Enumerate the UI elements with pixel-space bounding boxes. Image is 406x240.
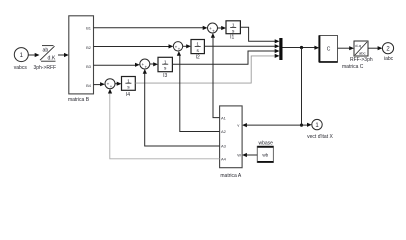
transfo block RFF->3ph xyxy=(350,41,373,63)
inport 1 vabcs xyxy=(14,48,29,71)
wire A2 feedback to S2 xyxy=(177,51,220,132)
wire S2 to I2 xyxy=(183,44,191,48)
wire B3 to sum S3 xyxy=(94,63,140,67)
svg-text:I2: I2 xyxy=(196,55,200,61)
wire A3 feedback to S3 xyxy=(143,69,220,146)
wire transfo to outport iabc xyxy=(368,46,382,50)
wire state net to outport vect d'etat X xyxy=(302,123,312,127)
integrator I3 xyxy=(158,57,172,79)
sum S3 xyxy=(140,59,150,69)
wire inport to transfo xyxy=(28,53,40,57)
wire B2 to sum S2 xyxy=(94,44,174,48)
svg-text:matrica A: matrica A xyxy=(220,173,242,179)
matrix A block xyxy=(220,106,243,179)
wire state net to matrix A input Y xyxy=(242,123,301,127)
wire I2 to mux input 2 xyxy=(204,44,279,48)
integrator I1 xyxy=(226,21,240,41)
svg-text:C: C xyxy=(327,46,331,52)
wire junction down to state net xyxy=(300,48,303,127)
svg-text:+: + xyxy=(212,28,215,33)
wire I4 to mux input 4 xyxy=(135,54,279,83)
svg-text:A2: A2 xyxy=(221,129,227,134)
svg-text:+: + xyxy=(110,84,113,89)
svg-text:Y: Y xyxy=(237,123,240,128)
svg-text:W: W xyxy=(237,153,241,158)
svg-text:B3: B3 xyxy=(86,64,92,69)
outport 2 iabc xyxy=(382,43,393,62)
sum S4 xyxy=(105,79,115,89)
mux xyxy=(279,38,282,60)
svg-text:1: 1 xyxy=(315,123,319,129)
wire wb to matrix A input W xyxy=(242,153,257,157)
wire A1 feedback to S1 xyxy=(211,33,220,118)
svg-text:2: 2 xyxy=(386,46,390,52)
svg-text:wbase: wbase xyxy=(258,140,273,146)
svg-text:d-q: d-q xyxy=(355,43,361,48)
svg-text:vabcs: vabcs xyxy=(14,65,28,71)
wire S3 to I3 xyxy=(150,62,158,66)
svg-text:B4: B4 xyxy=(86,83,92,88)
sum S1 xyxy=(208,23,218,33)
wire mux to matrix C with junction xyxy=(283,46,320,50)
wire A4 feedback to S4 xyxy=(108,89,220,159)
matrix B block xyxy=(68,16,94,103)
integrator I2 xyxy=(191,40,204,61)
outport 1 vect d'etat X xyxy=(307,119,333,140)
integrator I4 xyxy=(122,77,136,98)
svg-text:abc: abc xyxy=(359,51,365,56)
svg-text:3ph->RFF: 3ph->RFF xyxy=(33,65,56,71)
svg-text:iabc: iabc xyxy=(384,56,394,62)
svg-text:d.K: d.K xyxy=(48,56,56,62)
wire transfo to matrix B xyxy=(58,53,69,57)
svg-text:wb: wb xyxy=(262,153,268,158)
svg-text:RFF->3ph: RFF->3ph xyxy=(350,57,373,63)
svg-text:I3: I3 xyxy=(163,73,167,79)
svg-text:matrica C: matrica C xyxy=(342,64,364,70)
svg-text:A4: A4 xyxy=(221,157,227,162)
wire B1 to sum S1 xyxy=(94,26,208,30)
svg-text:B1: B1 xyxy=(86,25,92,30)
matrix C block xyxy=(319,36,364,71)
wire I3 to mux input 3 xyxy=(172,49,279,64)
svg-text:I1: I1 xyxy=(230,34,234,40)
wire S1 to I1 xyxy=(218,26,227,30)
svg-text:+: + xyxy=(178,47,181,52)
wire I1 to mux input 1 xyxy=(240,27,279,43)
svg-text:vect d'itat X: vect d'itat X xyxy=(307,134,333,140)
svg-text:A3: A3 xyxy=(221,144,227,149)
svg-text:A1: A1 xyxy=(221,115,227,120)
wire matrix C to transfo RFF->3ph xyxy=(338,46,354,50)
svg-text:B2: B2 xyxy=(86,45,92,50)
svg-text:1: 1 xyxy=(20,53,24,59)
svg-text:I4: I4 xyxy=(126,92,130,98)
transfo block 3ph->RFF xyxy=(33,46,56,71)
wire S4 to I4 xyxy=(115,82,122,86)
wire B4 to sum S4 xyxy=(94,82,105,86)
sum S2 xyxy=(173,42,182,52)
svg-text:+: + xyxy=(144,64,147,69)
constant wb (wbase) xyxy=(257,140,273,162)
svg-text:matrica B: matrica B xyxy=(68,97,90,103)
